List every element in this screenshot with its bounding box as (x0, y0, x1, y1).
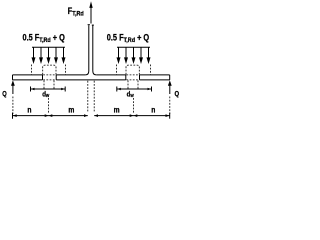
bottom dimension line (13, 113, 170, 119)
label n left (27, 105, 31, 115)
label F_T,Rd (68, 5, 84, 18)
T-stub web (85, 25, 96, 75)
svg-text:m: m (68, 105, 74, 115)
bolt axis left (dashed) (48, 98, 50, 114)
washer edges right (dashed) (117, 65, 151, 75)
bolt hole right (dashed lines) (126, 75, 138, 80)
bolt hole left (dashed lines) (43, 75, 55, 80)
svg-text:Q: Q (2, 90, 6, 98)
dimension d_w left (31, 87, 66, 92)
prying force Q left (11, 80, 15, 114)
label d_w left (42, 91, 49, 99)
dimension d_w right (117, 87, 152, 92)
bolt shank right (dashed) (128, 80, 138, 89)
svg-text:n: n (27, 105, 31, 115)
label n right (151, 105, 155, 115)
svg-text:Q: Q (175, 90, 180, 98)
bolt head right (dashed) (126, 65, 139, 75)
label m left (68, 105, 74, 115)
svg-text:n: n (151, 105, 155, 115)
distributed load left (0.5 F_T,Rd + Q) (32, 47, 66, 64)
label 0.5 F_T,Rd + Q right (107, 31, 150, 44)
prying force Q right (168, 80, 172, 114)
label 0.5 F_T,Rd + Q left (23, 31, 66, 44)
bolt head left (dashed) (43, 65, 56, 75)
label Q left (2, 90, 6, 98)
T-stub flange (13, 75, 170, 80)
washer edges left (dashed) (32, 65, 66, 75)
bolt axis right (dashed) (133, 98, 135, 114)
web face extensions (dashed) (88, 81, 94, 112)
force arrow F_T,Rd (89, 1, 92, 23)
svg-text:m: m (114, 105, 120, 115)
label Q right (175, 90, 180, 98)
distributed load right (0.5 F_T,Rd + Q) (117, 47, 151, 64)
bolt shank left (dashed) (44, 80, 54, 89)
label d_w right (127, 91, 134, 99)
label m right (114, 105, 120, 115)
